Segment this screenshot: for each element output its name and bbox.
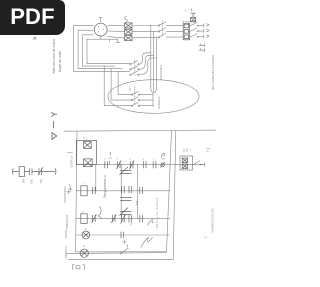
rung1 contact b: [117, 159, 122, 169]
rung1 contact a: [104, 159, 108, 168]
svg-text:3: 3: [130, 159, 132, 161]
label delta: [52, 133, 57, 140]
plus mark: [67, 190, 71, 194]
svg-text:2: 2: [104, 159, 106, 161]
svg-text:1-4: 1-4: [204, 237, 208, 239]
pilot circle on rung1: [161, 162, 165, 167]
svg-text:1: 1: [86, 138, 88, 141]
wire phase W right: [107, 37, 124, 38]
svg-text:A: A: [85, 227, 87, 230]
rung4 wire: [76, 234, 170, 236]
control terminal block dashed: [180, 156, 193, 170]
branch contact k2: [120, 198, 131, 201]
svg-text:kt1: kt1: [135, 200, 140, 205]
drop wire to star pole 1: [104, 66, 131, 106]
thermal relay chain left: [12, 167, 56, 177]
phase tag T: [207, 35, 210, 38]
svg-text:feito em casa de sobra: feito em casa de sobra: [52, 39, 56, 73]
svg-text:AMARELO: AMARELO: [65, 246, 68, 258]
svg-text:Temporizacao d: Temporizacao d: [103, 175, 107, 198]
svg-text:2: 2: [82, 184, 84, 186]
contactor K3 pole 3: [131, 102, 153, 106]
handwritten note left: [33, 37, 62, 74]
switch Q1 pole 1: [158, 22, 172, 26]
branch contact k1: [120, 167, 132, 175]
svg-text:ESTRELA: ESTRELA: [70, 156, 73, 168]
fuse F4 control tap: [191, 13, 196, 22]
svg-text:081: 081: [29, 179, 33, 184]
K3 pole1 tag: [129, 87, 131, 91]
labels above X1: [185, 9, 192, 11]
svg-text:1: 1: [129, 87, 131, 89]
handwritten loop mid-left: [98, 207, 101, 219]
rung2 wire: [76, 190, 170, 192]
svg-text:VERDE: VERDE: [65, 229, 68, 238]
annotation ellipse: [108, 80, 199, 114]
switch Q1 pole 2: [158, 28, 172, 32]
label Y: [52, 112, 57, 116]
svg-text:TRIANGULO: TRIANGULO: [159, 65, 163, 80]
rung3 wire: [76, 218, 170, 220]
squiggle near rung3: [148, 220, 154, 226]
svg-text:CIRCUITO COMANDO: CIRCUITO COMANDO: [211, 208, 214, 233]
contactor K2 pole 1: [130, 61, 139, 65]
dashed enclosure X1: [183, 21, 197, 23]
marks above control block: [184, 148, 191, 152]
tap wire T3 down: [154, 37, 156, 92]
fuse F2: [125, 29, 132, 34]
switch Q2 pole 2: [190, 28, 204, 33]
rung3 contact n: [140, 215, 143, 222]
contactor K2 pole 3: [130, 71, 139, 75]
handwritten b1 loops: [141, 237, 153, 247]
plus squiggle right: [123, 240, 128, 247]
wire F1 to Q1: [132, 25, 158, 27]
stamp mark: [73, 265, 85, 270]
branch vertical k: [120, 164, 122, 218]
label dash: [53, 121, 55, 128]
contactor K3 pole 2: [131, 97, 153, 101]
svg-text:3: 3: [83, 136, 85, 140]
terminal N: [199, 44, 205, 47]
wire Q1 to X1: [172, 25, 183, 37]
wire F2 to Q1: [132, 30, 158, 32]
tap wire T1 down: [151, 26, 153, 93]
drop wire to star pole 3: [118, 71, 131, 94]
K2 linkage dashed: [134, 60, 136, 76]
svg-text:ESTRELA: ESTRELA: [157, 96, 161, 108]
switch Q1 pole 3: [158, 33, 172, 38]
fuse F1: [125, 23, 132, 28]
terminal block X1: [183, 23, 189, 40]
K2 link curves: [139, 53, 156, 75]
fuse F3: [125, 36, 132, 41]
svg-text:A: A: [83, 245, 85, 248]
Q1 linkage dashed: [161, 21, 163, 37]
rung3 contact: [121, 215, 132, 223]
lamp coil H1: [80, 245, 88, 257]
rung1 contact c: [130, 159, 135, 169]
PDF badge: [0, 0, 65, 35]
rung4 contact: [121, 232, 124, 238]
phase tag R: [207, 24, 210, 27]
control frame outer: [68, 131, 176, 260]
rung1 contact e: [153, 159, 156, 168]
wire F3 to Q1: [132, 36, 158, 39]
rung1 supply box: [76, 138, 96, 167]
phase tag S: [207, 29, 210, 32]
switch Q2 pole 1: [190, 22, 204, 27]
wire motor left V2: [78, 30, 122, 68]
terminal PE: [199, 49, 205, 52]
coil K2: [81, 212, 87, 224]
coil K1: [81, 184, 87, 196]
handwritten marks mid: [109, 152, 112, 164]
svg-text:TRIANGULO: TRIANGULO: [66, 215, 69, 230]
contactor K2 pole 2: [130, 66, 139, 70]
wire phase U right: [108, 24, 125, 26]
rung3 tick label: [130, 223, 132, 225]
wire motor left W2: [83, 35, 115, 66]
rung5 switch: [120, 248, 128, 254]
control supply switch: [193, 161, 205, 167]
rung3 contact q: [112, 214, 117, 222]
relay chain labels: [21, 178, 43, 183]
svg-text:TEMPORIZAD: TEMPORIZAD: [64, 186, 67, 203]
svg-text:longe da rede: longe da rede: [58, 51, 62, 72]
rung1 contact d: [143, 159, 146, 168]
squiggle label above pilot: [161, 153, 165, 159]
tiny marks right upper: [207, 149, 210, 152]
motor PE bar: [87, 36, 120, 42]
rung3 contact p: [92, 214, 97, 222]
motor M1: [94, 18, 107, 37]
svg-text:CIRCUITO DE FORCA 380: CIRCUITO DE FORCA 380: [211, 55, 215, 91]
wire motor left U2: [74, 25, 130, 71]
wire phase V right: [108, 30, 125, 33]
branch contact k3: [120, 208, 132, 216]
svg-text:5: 5: [143, 159, 145, 161]
drop wire to star pole 2: [111, 69, 131, 100]
contactor K3 pole 1: [131, 91, 153, 95]
label 9 handwritten: [125, 17, 128, 23]
svg-text:5 0 4 + j = u - 1 3 4 e 2: 5 0 4 + j = u - 1 3 4 e 2: [155, 197, 159, 228]
divider line: [64, 130, 216, 131]
svg-text:1FR: 1FR: [21, 178, 25, 183]
rung2 contact p: [93, 187, 96, 194]
K3 linkage dashed: [134, 87, 136, 104]
svg-text:132: 132: [39, 179, 43, 184]
timer coil KT1: [82, 227, 90, 239]
K3 bus: [152, 93, 154, 107]
border tick: [67, 152, 72, 154]
tap wire T2 down: [153, 32, 155, 93]
svg-text:1: 1: [117, 159, 119, 161]
rung2 contact m: [122, 186, 132, 193]
switch Q2 pole 3: [190, 34, 204, 39]
rung5 wire: [67, 253, 167, 254]
control frame inner: [76, 131, 172, 252]
wire motor bottom loop: [87, 39, 130, 63]
svg-text:3: 3: [82, 212, 84, 214]
svg-text:7: 7: [153, 159, 155, 161]
rung2 contact n: [140, 187, 143, 194]
rung1 wire: [76, 163, 205, 165]
handwritten lambda marks: [69, 185, 73, 191]
seal branch vertical: [95, 164, 97, 190]
branch vertical m: [137, 164, 139, 218]
